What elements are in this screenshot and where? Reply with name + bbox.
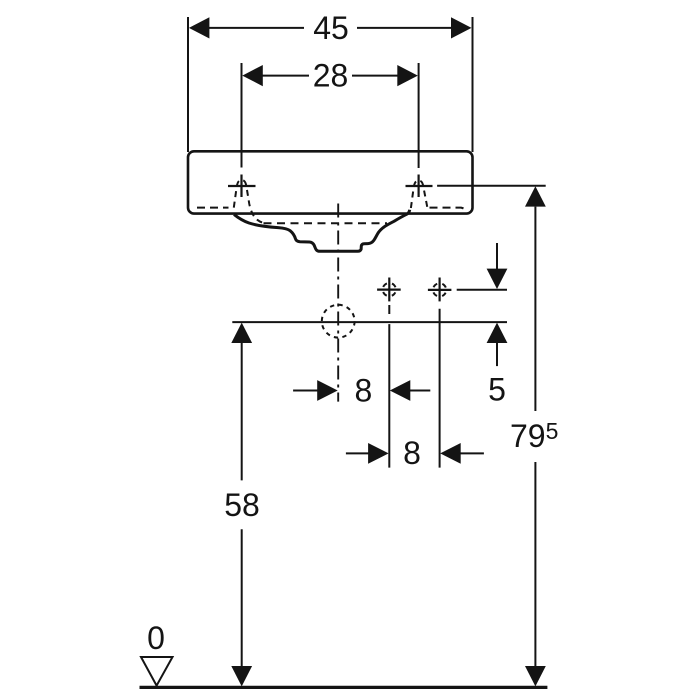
hidden line: basin back ledge left [197,207,229,209]
overflow hole crosshair 2: horizontal bar [428,289,452,291]
overflow hole crosshair 1: dashed circle [380,280,399,299]
crosshair 1 centerline dashes below [388,305,390,317]
dimension 5: lower arrowhead (up) [487,323,508,343]
dimension 45: dimension line left segment [207,27,304,29]
dimension 28: dimension line right segment [352,75,399,77]
crosshair 2 extension line down [439,309,441,468]
dimension 79.5: upper arrowhead (up) [525,186,546,206]
svg-text:0: 0 [147,620,165,656]
dimension 79.5: lower arrowhead (down) [525,666,546,686]
dimension 28: left arrowhead [242,65,262,86]
drain hole circle (dashed) [322,305,355,338]
dimension 45: dimension line right segment [357,27,453,29]
overflow hole crosshair 2: dashed circle [430,281,449,300]
overflow hole crosshair 1: vertical bar [388,278,390,302]
reference line at crosshair level (for dim 5 top) [457,289,507,291]
dimension 45: right extension line [472,17,474,152]
right fixing cross: horizontal bar [406,185,433,187]
dimension 8 (lower): right arrow stem [460,452,484,454]
crosshair 1 extension line down [388,324,390,468]
dimension 28: right arrowhead [397,65,418,86]
svg-text:8: 8 [403,435,421,471]
dimension 28: right extension line [418,63,420,168]
dimension 8 (upper): right arrow stem [410,390,430,392]
dimension 8 (lower): right arrowhead (left-pointing) [440,443,461,464]
dimension 79.5: line lower segment [534,462,536,667]
dimension 5: upper arrowhead (down) [487,269,508,289]
dimension 58: upper arrowhead (up) [231,323,252,343]
washbasin bowl outline [234,210,410,252]
hidden line: left mounting-hole tent [234,180,264,223]
dimension 45: right arrowhead [451,17,472,38]
dimension 28: dimension line left segment [261,75,309,77]
overflow hole crosshair 2: vertical bar [439,278,441,302]
dimension 8 (lower): left arrow stem [346,452,369,454]
dimension 58: line upper segment [241,343,243,480]
reference line at drain level (for dims 58 and 5) [232,321,507,323]
dimension 45: left extension line [187,17,189,152]
svg-text:45: 45 [313,10,349,46]
svg-text:5: 5 [488,371,506,407]
washbasin body outline [188,151,473,213]
dimension 28: left extension line [241,63,243,168]
floor line [140,686,548,689]
dimension 5: upper arrow stem [496,243,498,270]
dimension 8 (upper): left arrowhead (right-pointing) [317,380,338,401]
centerline of bowl (dash-dot) [337,204,339,402]
right fixing cross: vertical bar [418,175,420,198]
datum triangle symbol [141,657,173,686]
reference line at fixing level (for dim 79.5), from right cross [437,185,546,187]
svg-text:58: 58 [224,487,260,523]
dimension 45: left arrowhead [189,17,210,38]
svg-text:28: 28 [313,58,349,94]
dimension 58: line lower segment [241,529,243,667]
hidden line: basin back ledge right [430,208,466,211]
dimension 5: lower arrow stem [496,343,498,366]
dimension 58: lower arrowhead (down) [231,666,252,686]
left fixing cross: horizontal bar [228,185,256,187]
left fixing cross: vertical bar [240,175,242,198]
overflow hole crosshair 1: horizontal bar [377,289,401,291]
dimension 8 (lower): left arrowhead (right-pointing) [368,443,389,464]
hidden line: right mounting-hole tent [411,181,427,208]
svg-text:8: 8 [355,372,373,408]
dimension 8 (upper): left arrow stem [293,390,318,392]
hidden line: bowl inner rim [264,222,388,224]
dimension 8 (upper): right arrowhead (left-pointing) [390,380,411,401]
dimension 79.5: line upper segment [534,207,536,411]
